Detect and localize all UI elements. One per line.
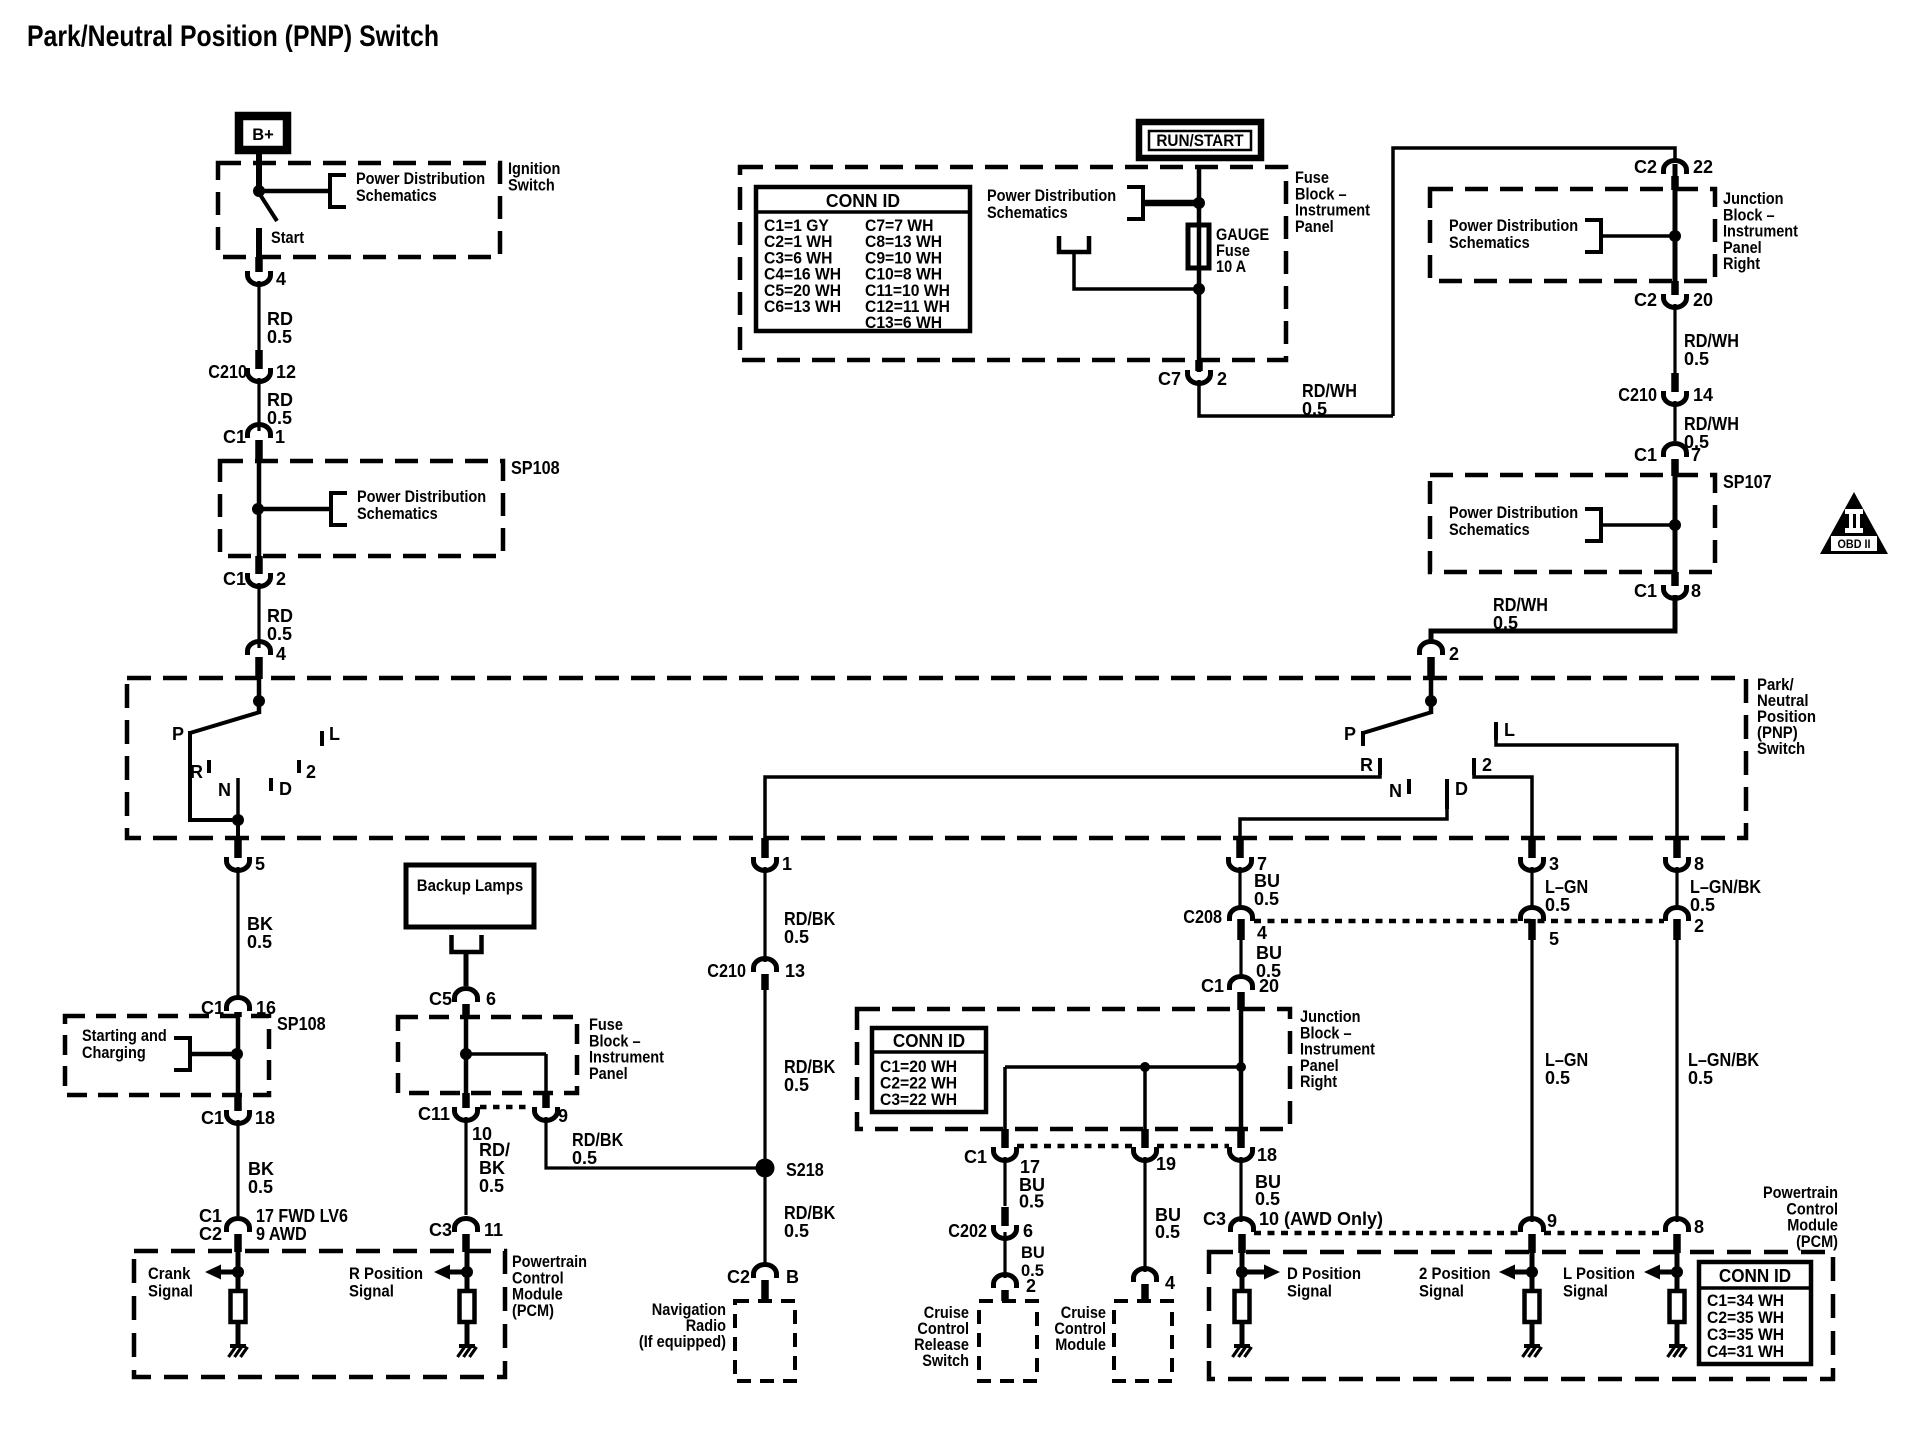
- svg-text:0.5: 0.5: [1493, 613, 1518, 633]
- svg-text:Right: Right: [1723, 255, 1761, 273]
- junction block instrument panel right dashed box (top): [1430, 189, 1715, 281]
- connector C2 pin B: [754, 1265, 777, 1278]
- svg-text:3: 3: [1549, 854, 1559, 874]
- connector C7 pin 2: [1195, 360, 1203, 371]
- svg-text:0.5: 0.5: [479, 1176, 504, 1196]
- wire RD/BK pin1 down: [763, 867, 766, 962]
- svg-text:17: 17: [1020, 1157, 1040, 1177]
- svg-text:C5: C5: [429, 989, 452, 1009]
- connector C210 pin 14: [1671, 373, 1679, 392]
- svg-text:5: 5: [1549, 929, 1559, 949]
- svg-text:RD/BK: RD/BK: [572, 1130, 623, 1150]
- connector C1 pin 20: [1230, 977, 1253, 991]
- node junction top: [1669, 230, 1681, 242]
- wire resistor to ground (crank): [236, 1322, 241, 1346]
- connector C1 pin 19: [1141, 1129, 1149, 1148]
- node ignition feed junction: [253, 185, 265, 197]
- svg-text:C1: C1: [1634, 445, 1657, 465]
- svg-text:Ignition: Ignition: [508, 160, 560, 178]
- svg-text:18: 18: [255, 1108, 275, 1128]
- svg-text:Start: Start: [271, 229, 305, 247]
- bracket stub (other circuits): [1059, 236, 1089, 252]
- svg-text:Power Distribution: Power Distribution: [1449, 504, 1578, 522]
- svg-text:CONN ID: CONN ID: [826, 190, 900, 211]
- svg-text:C1=34 WH: C1=34 WH: [1707, 1292, 1784, 1310]
- wire L-GN/BK pin8 to C208-2: [1675, 867, 1678, 908]
- svg-text:L–GN: L–GN: [1545, 1050, 1588, 1070]
- svg-text:Switch: Switch: [922, 1352, 969, 1370]
- svg-text:Instrument: Instrument: [1723, 223, 1798, 241]
- arrow 2 position signal: [1513, 1270, 1532, 1275]
- svg-text:0.5: 0.5: [267, 624, 292, 644]
- wire into PCM L position: [1675, 1253, 1680, 1291]
- connector pin 4 (PNP switch input): [248, 642, 271, 656]
- connector C1 pin 2: [255, 556, 263, 574]
- svg-text:0.5: 0.5: [784, 1221, 809, 1241]
- wire to power distribution bracket: [259, 189, 330, 194]
- node L position signal: [1671, 1266, 1683, 1278]
- svg-text:2 Position: 2 Position: [1419, 1264, 1491, 1283]
- svg-text:Signal: Signal: [1419, 1282, 1464, 1301]
- wire into PCM R position: [465, 1252, 470, 1291]
- svg-text:2: 2: [306, 762, 316, 782]
- svg-text:Crank: Crank: [148, 1264, 191, 1283]
- connector C1 pin 16: [227, 998, 250, 1012]
- svg-text:D Position: D Position: [1287, 1264, 1361, 1283]
- wire into PCM crank: [236, 1252, 241, 1291]
- switch blade left (to P): [257, 703, 262, 714]
- arrow L position signal: [1658, 1270, 1677, 1275]
- wire bracket to run/start feed: [1143, 200, 1197, 207]
- dotted link C208: [1254, 919, 1664, 924]
- svg-text:Block –: Block –: [1295, 185, 1347, 203]
- node SP107 junction: [1669, 519, 1681, 531]
- connector C3 pin 11: [455, 1219, 478, 1233]
- svg-text:0.5: 0.5: [1302, 399, 1327, 419]
- svg-text:8: 8: [1694, 854, 1704, 874]
- svg-text:Control: Control: [1786, 1200, 1838, 1218]
- svg-text:C210: C210: [208, 362, 247, 382]
- arrow D position signal: [1242, 1270, 1266, 1275]
- wire BU C208 to C1-20: [1239, 940, 1242, 977]
- svg-text:C1: C1: [199, 1206, 222, 1226]
- wire backup lamps to C5: [464, 952, 469, 986]
- svg-text:Signal: Signal: [1287, 1282, 1332, 1301]
- svg-text:RD: RD: [267, 390, 293, 410]
- wire Start terminal: [256, 228, 262, 268]
- bracket power distribution (SP107): [1585, 509, 1601, 541]
- svg-text:C1: C1: [1634, 581, 1657, 601]
- wire bracket to SP108 node: [190, 1052, 236, 1057]
- svg-text:9: 9: [1547, 1211, 1557, 1231]
- wire RD/BK S218 to C2: [763, 1177, 766, 1266]
- svg-text:Schematics: Schematics: [356, 187, 437, 205]
- node R position signal: [461, 1266, 473, 1278]
- svg-text:Powertrain: Powertrain: [512, 1253, 587, 1271]
- svg-text:(PCM): (PCM): [512, 1302, 554, 1320]
- bracket starting and charging: [174, 1038, 190, 1070]
- svg-text:C1: C1: [223, 427, 246, 447]
- wire RD/BK pin10 to C3-11: [464, 1117, 467, 1215]
- ground 2 position: [1524, 1344, 1540, 1348]
- connector C210 pin 12: [255, 350, 263, 369]
- wire 2 to pin 3: [1474, 775, 1532, 846]
- connector pin 2 (PNP right input): [1420, 642, 1443, 656]
- node SP108-2 junction: [231, 1048, 243, 1060]
- svg-text:Schematics: Schematics: [987, 204, 1068, 222]
- svg-text:2: 2: [1482, 755, 1492, 775]
- node 2 position signal: [1526, 1266, 1538, 1278]
- fuse block instrument panel dashed box (top): [740, 167, 1286, 360]
- connector C11 pin 10: [462, 1093, 470, 1108]
- svg-text:C7: C7: [1158, 369, 1181, 389]
- wire through SP108: [257, 461, 262, 556]
- svg-text:SP108: SP108: [277, 1014, 326, 1034]
- svg-text:0.5: 0.5: [784, 1075, 809, 1095]
- connector C1 pin 1: [248, 425, 271, 439]
- svg-text:Junction: Junction: [1300, 1008, 1361, 1026]
- svg-text:R Position: R Position: [349, 1264, 423, 1283]
- svg-text:0.5: 0.5: [1684, 349, 1709, 369]
- wire P to N (left switch park position): [190, 744, 236, 820]
- wire PNP left input: [257, 679, 262, 703]
- svg-text:Fuse: Fuse: [589, 1016, 623, 1034]
- svg-text:R: R: [1360, 755, 1373, 775]
- svg-text:Panel: Panel: [1295, 218, 1334, 236]
- svg-text:10 A: 10 A: [1216, 258, 1246, 276]
- svg-text:C210: C210: [1618, 385, 1657, 405]
- svg-text:Block –: Block –: [589, 1032, 641, 1050]
- svg-text:S218: S218: [786, 1160, 824, 1180]
- RUN/START box: [1139, 122, 1261, 158]
- svg-text:11: 11: [484, 1220, 503, 1240]
- wire BU 18 to C3-10: [1239, 1157, 1242, 1222]
- resistor R position: [460, 1291, 475, 1322]
- svg-text:0.5: 0.5: [1155, 1222, 1180, 1242]
- wire BU pin7 to C208: [1238, 867, 1241, 908]
- svg-text:L Position: L Position: [1563, 1264, 1635, 1283]
- svg-text:Signal: Signal: [148, 1282, 193, 1301]
- svg-text:Power Distribution: Power Distribution: [987, 187, 1116, 205]
- svg-text:4: 4: [276, 644, 286, 664]
- svg-text:1: 1: [782, 854, 792, 874]
- PCM dashed box right: [1209, 1252, 1833, 1379]
- cruise control release switch dashed box: [979, 1301, 1037, 1381]
- wire RD/WH riser: [1393, 148, 1675, 416]
- svg-text:C210: C210: [707, 961, 746, 981]
- wire RD/WH C2-20 to C210-14: [1673, 304, 1676, 375]
- wire D to pin 7: [1240, 809, 1447, 846]
- svg-text:7: 7: [1691, 445, 1701, 465]
- svg-text:Power Distribution: Power Distribution: [356, 170, 485, 188]
- svg-text:C2: C2: [199, 1224, 222, 1244]
- svg-text:0.5: 0.5: [267, 327, 292, 347]
- svg-text:9 AWD: 9 AWD: [256, 1224, 307, 1244]
- wire through junction block lower: [1239, 1010, 1244, 1129]
- connector C208 pin 4: [1230, 908, 1253, 922]
- svg-text:L: L: [329, 724, 340, 744]
- svg-text:N: N: [1389, 781, 1402, 801]
- connector C1 pin 18: [1237, 1129, 1245, 1148]
- connector pin 7 (PNP output D): [1236, 838, 1244, 858]
- svg-text:0.5: 0.5: [784, 927, 809, 947]
- svg-text:D: D: [1455, 779, 1468, 799]
- bracket power distribution (fuse block): [1127, 187, 1143, 219]
- svg-text:20: 20: [1259, 976, 1279, 996]
- svg-text:1: 1: [275, 427, 285, 447]
- terminal 2 left: [297, 760, 301, 773]
- svg-text:Control: Control: [512, 1269, 564, 1287]
- CONN ID table (junction block): [872, 1028, 986, 1112]
- svg-text:P: P: [1344, 724, 1356, 744]
- svg-text:0.5: 0.5: [1254, 889, 1279, 909]
- svg-text:9: 9: [558, 1106, 568, 1126]
- svg-text:RD/WH: RD/WH: [1684, 331, 1739, 351]
- svg-text:0.5: 0.5: [248, 1177, 273, 1197]
- svg-text:C1: C1: [223, 569, 246, 589]
- svg-text:Schematics: Schematics: [1449, 521, 1530, 539]
- backup lamps box: [406, 865, 534, 927]
- svg-text:6: 6: [1023, 1221, 1033, 1241]
- svg-text:C2=35 WH: C2=35 WH: [1707, 1309, 1784, 1327]
- fuse GAUGE 10A: [1188, 225, 1209, 268]
- svg-text:RD/: RD/: [479, 1140, 510, 1160]
- connector C1 pin 17: [1001, 1129, 1009, 1148]
- ignition switch dashed box: [218, 163, 500, 257]
- svg-text:C3: C3: [429, 1220, 452, 1240]
- wire resistor to ground (D): [1240, 1322, 1245, 1346]
- terminal L right: [1494, 722, 1498, 740]
- ground D position: [1234, 1344, 1250, 1348]
- svg-text:Block –: Block –: [1723, 206, 1775, 224]
- ground R position: [459, 1344, 475, 1348]
- svg-text:Instrument: Instrument: [1300, 1041, 1375, 1059]
- svg-text:OBD II: OBD II: [1838, 537, 1871, 551]
- resistor L position: [1670, 1291, 1685, 1322]
- wire left switch output: [236, 820, 240, 846]
- svg-text:RD: RD: [267, 309, 293, 329]
- svg-text:Signal: Signal: [349, 1282, 394, 1301]
- node junction bus 18: [1236, 1062, 1246, 1072]
- node PNP left pivot: [253, 695, 265, 707]
- svg-text:RD: RD: [267, 606, 293, 626]
- terminal P left: [188, 731, 192, 746]
- wire RD/WH C7 to junction block: [1199, 380, 1393, 416]
- node fuse output junction: [1193, 283, 1205, 295]
- connector C11 pin 9: [542, 1093, 550, 1108]
- bracket below backup lamps: [452, 935, 482, 952]
- connector pin 4 (cruise module): [1134, 1269, 1157, 1283]
- svg-text:14: 14: [1693, 385, 1713, 405]
- svg-text:CONN ID: CONN ID: [893, 1031, 965, 1051]
- svg-text:17 FWD LV6: 17 FWD LV6: [256, 1206, 348, 1226]
- svg-text:8: 8: [1691, 581, 1701, 601]
- wire RD/WH C1-8 to PNP pin 2: [1431, 595, 1675, 642]
- svg-text:Block –: Block –: [1300, 1024, 1352, 1042]
- connector pin 3 (PNP output 2): [1528, 838, 1536, 858]
- connector pin 2 (cruise release): [994, 1275, 1017, 1289]
- splice SP107 dashed box: [1430, 475, 1715, 572]
- terminal P right: [1361, 731, 1365, 746]
- dotted link C3 pcm: [1254, 1231, 1520, 1236]
- svg-text:Power Distribution: Power Distribution: [1449, 217, 1578, 235]
- svg-text:0.5: 0.5: [1255, 1189, 1280, 1209]
- svg-text:L–GN/BK: L–GN/BK: [1690, 877, 1761, 897]
- wire through fuse block lower: [464, 1017, 469, 1093]
- connector C208 pin 5: [1521, 908, 1544, 922]
- svg-text:P: P: [172, 724, 184, 744]
- wire PNP right input: [1429, 679, 1434, 703]
- svg-text:8: 8: [1694, 1217, 1704, 1237]
- svg-text:C202: C202: [948, 1221, 987, 1241]
- wire through SP108 (2): [236, 1016, 241, 1095]
- resistor D position: [1235, 1291, 1250, 1322]
- svg-text:Charging: Charging: [82, 1044, 146, 1062]
- junction block instrument panel right dashed box (lower): [857, 1009, 1290, 1129]
- svg-text:RD/BK: RD/BK: [784, 1203, 835, 1223]
- navigation radio dashed box: [735, 1301, 795, 1381]
- PNP switch dashed box: [127, 678, 1746, 838]
- connector C1 pin 18: [234, 1095, 242, 1111]
- dotted link C11 connectors: [480, 1105, 532, 1110]
- wire bracket junction top: [1601, 234, 1672, 238]
- svg-text:Schematics: Schematics: [1449, 234, 1530, 252]
- svg-text:5: 5: [255, 854, 265, 874]
- connector C202 pin 6: [1001, 1207, 1009, 1226]
- wire BK to PCM: [236, 1120, 239, 1216]
- node SP108 junction: [252, 503, 264, 515]
- svg-text:C1: C1: [1201, 976, 1224, 996]
- wire RD to C1: [257, 378, 260, 431]
- svg-text:20: 20: [1693, 290, 1713, 310]
- OBD II triangle symbol: [1820, 492, 1888, 554]
- terminal N right: [1407, 779, 1411, 794]
- fuse block instrument panel dashed box (lower): [398, 1017, 577, 1093]
- resistor 2 position: [1525, 1291, 1540, 1322]
- svg-text:L: L: [1504, 720, 1515, 740]
- svg-text:10 (AWD Only): 10 (AWD Only): [1259, 1209, 1383, 1229]
- wire L-GN C208-5 to pcm 9: [1530, 940, 1533, 1222]
- svg-text:RD/WH: RD/WH: [1302, 381, 1357, 401]
- svg-text:D: D: [279, 779, 292, 799]
- terminal D right: [1445, 779, 1449, 809]
- svg-text:Junction: Junction: [1723, 190, 1784, 208]
- wire L-GN pin3 to C208-5: [1530, 867, 1533, 908]
- svg-text:2: 2: [276, 569, 286, 589]
- connector pin 5 (PNP output P/N): [234, 838, 242, 858]
- svg-text:B+: B+: [252, 126, 274, 144]
- wire to bracket SP108: [258, 507, 331, 512]
- svg-text:6: 6: [486, 989, 496, 1009]
- svg-text:0.5: 0.5: [247, 932, 272, 952]
- bracket power distribution (junction top): [1585, 220, 1601, 252]
- svg-text:Signal: Signal: [1563, 1282, 1608, 1301]
- svg-text:C4=31 WH: C4=31 WH: [1707, 1343, 1784, 1361]
- wire through junction block top: [1673, 164, 1678, 281]
- wire bus drop 19: [1143, 1067, 1147, 1129]
- svg-text:2: 2: [1449, 644, 1459, 664]
- wire R to pin 1: [765, 775, 1380, 846]
- svg-text:Starting and: Starting and: [82, 1027, 167, 1045]
- wire RD to C210: [257, 281, 260, 352]
- terminal N left: [236, 778, 240, 822]
- svg-text:18: 18: [1257, 1145, 1277, 1165]
- svg-text:C3: C3: [1203, 1209, 1226, 1229]
- arrow crank signal: [219, 1270, 238, 1275]
- svg-text:RUN/START: RUN/START: [1156, 131, 1244, 150]
- svg-text:Switch: Switch: [1757, 739, 1805, 758]
- wire resistor to ground (R): [465, 1322, 470, 1346]
- switch blade right (to P): [1429, 703, 1434, 714]
- CONN ID table (fuse block): [756, 187, 970, 331]
- svg-text:(If equipped): (If equipped): [639, 1333, 726, 1351]
- svg-text:19: 19: [1156, 1154, 1176, 1174]
- wire BU 17 to C202: [1003, 1157, 1006, 1206]
- svg-text:L–GN: L–GN: [1545, 877, 1588, 897]
- connector pin 9 (pcm): [1521, 1219, 1544, 1233]
- PCM dashed box left: [134, 1251, 505, 1377]
- svg-text:22: 22: [1693, 157, 1713, 177]
- wire RD/BK to S218: [763, 990, 766, 1162]
- svg-text:Right: Right: [1300, 1073, 1338, 1091]
- svg-text:C13=6 WH: C13=6 WH: [865, 314, 942, 332]
- wire L-GN/BK C208-2 to pcm 8: [1675, 940, 1678, 1222]
- ground L position: [1669, 1344, 1685, 1348]
- svg-text:C2: C2: [1634, 157, 1657, 177]
- svg-text:Power Distribution: Power Distribution: [357, 488, 486, 506]
- svg-text:Panel: Panel: [589, 1065, 628, 1083]
- connector pin 8 (PNP output L): [1673, 838, 1681, 858]
- wire stub to fuse output: [1074, 252, 1196, 289]
- wire RD to PNP switch: [257, 583, 260, 648]
- svg-text:Panel: Panel: [1723, 239, 1762, 257]
- svg-text:4: 4: [1257, 923, 1267, 943]
- svg-text:N: N: [218, 780, 231, 800]
- node left switch output: [232, 814, 244, 826]
- svg-text:C6=13 WH: C6=13 WH: [764, 298, 841, 316]
- svg-text:C3=22 WH: C3=22 WH: [880, 1091, 957, 1109]
- wire BU 19 to cruise module: [1143, 1157, 1146, 1272]
- connector C3 pin 10 AWD: [1231, 1219, 1254, 1233]
- node run/start junction: [1193, 197, 1205, 209]
- svg-text:RD/BK: RD/BK: [784, 909, 835, 929]
- connector C5 pin 6: [455, 989, 478, 1002]
- svg-text:0.5: 0.5: [1019, 1192, 1044, 1212]
- splice SP108 dashed box (power distribution): [220, 461, 503, 556]
- svg-text:Park/Neutral Position (PNP) Sw: Park/Neutral Position (PNP) Switch: [27, 20, 439, 53]
- connector pin 4 (ignition switch output): [255, 257, 263, 272]
- wire resistor to ground (2): [1530, 1322, 1535, 1346]
- svg-text:Backup Lamps: Backup Lamps: [417, 876, 523, 895]
- wire RD/BK pin9 to S218: [546, 1117, 757, 1168]
- terminal 2 right: [1472, 758, 1476, 775]
- wire into PCM 2 position: [1530, 1253, 1535, 1291]
- connector pin 1 (PNP output R): [761, 838, 769, 858]
- splice S218: [756, 1159, 775, 1178]
- wire bracket SP107: [1601, 523, 1672, 527]
- svg-text:0.5: 0.5: [1690, 895, 1715, 915]
- svg-text:C1=20 WH: C1=20 WH: [880, 1058, 957, 1076]
- wire BU C202 to cruise release: [1003, 1232, 1006, 1278]
- wire RUN/START down to fuse: [1197, 167, 1202, 372]
- svg-text:2: 2: [1694, 916, 1704, 936]
- bracket power distribution (ignition): [330, 175, 346, 207]
- connector C1 pin 8: [1671, 572, 1679, 586]
- wire into PCM D position: [1240, 1253, 1245, 1291]
- svg-text:C2: C2: [1634, 290, 1657, 310]
- svg-text:B: B: [786, 1267, 799, 1287]
- svg-text:C1: C1: [964, 1147, 987, 1167]
